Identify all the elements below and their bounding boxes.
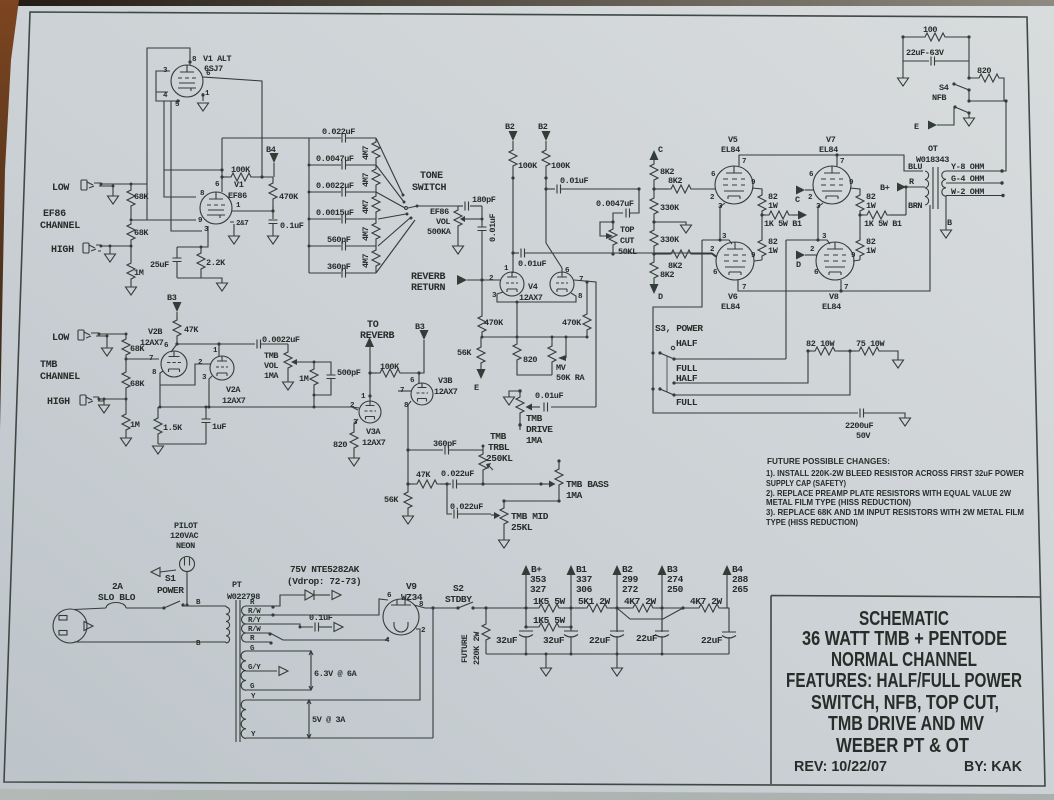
ground 2200uF <box>900 418 911 426</box>
wires LOW TMB jack <box>91 333 126 348</box>
resistor 1M input <box>130 246 132 261</box>
pot TMB VOL 1MA <box>287 344 289 350</box>
svg-text:V3A: V3A <box>366 427 381 437</box>
svg-text:TOP: TOP <box>620 225 634 235</box>
svg-text:1.5K: 1.5K <box>163 423 183 433</box>
6.3V bottom tap G <box>246 689 311 691</box>
svg-text:1K5 5W: 1K5 5W <box>533 596 566 607</box>
ground under 2&7 <box>229 236 240 244</box>
resistor 56K to E <box>480 337 482 345</box>
jack HIGH TMB <box>80 395 93 405</box>
svg-text:47K: 47K <box>416 470 431 480</box>
title block box <box>771 596 1041 785</box>
HT tap RW1 to V9 pin6 <box>246 599 388 615</box>
svg-text:360pF: 360pF <box>433 439 457 449</box>
OT tap W-2 OHM <box>946 195 1003 197</box>
resistor 1K5 5W upper <box>536 604 562 612</box>
capacitor 0.0022uF <box>257 340 261 349</box>
title block text <box>786 608 1022 757</box>
wire V1ALT pin3/4/5 box <box>156 71 180 101</box>
svg-text:1W: 1W <box>866 246 877 256</box>
svg-text:W-2 OHM: W-2 OHM <box>951 187 984 197</box>
OT core <box>933 167 938 209</box>
resistor 1K 5W B1 right <box>860 214 864 216</box>
capacitor 0.0015uF row4 <box>342 215 346 224</box>
tone row 1 wire <box>309 137 376 139</box>
tube V2B 12AX7 <box>161 351 187 377</box>
resistor 82 1W V5 screen <box>752 188 762 193</box>
capacitor 25uF cathode <box>176 247 178 258</box>
svg-text:PT: PT <box>232 580 242 590</box>
open arrow 0.1uF out <box>334 623 343 632</box>
5V bottom tap Y <box>246 737 433 739</box>
tube V1 EF86 <box>200 192 232 224</box>
svg-text:S2: S2 <box>453 583 464 594</box>
wire B4 node <box>727 575 729 632</box>
svg-text:68K: 68K <box>134 192 149 202</box>
wire V2A pin2 grid <box>160 364 211 385</box>
resistor 820 NFB <box>969 37 976 78</box>
wire plug bottom to PT <box>74 641 226 643</box>
OT secondary bottom to ground B <box>945 196 947 230</box>
wire V1 pin3 cathode <box>177 226 208 247</box>
switch S2 STDBY <box>456 606 459 609</box>
svg-text:68K: 68K <box>134 228 149 238</box>
svg-text:TMB: TMB <box>526 413 543 424</box>
junction pin8 <box>188 60 191 63</box>
svg-text:EF86: EF86 <box>430 207 449 217</box>
switch S4 NFB upper <box>954 84 969 101</box>
svg-text:LOW: LOW <box>52 183 69 194</box>
svg-text:V7: V7 <box>826 135 836 145</box>
svg-text:0.0022uF: 0.0022uF <box>316 181 354 191</box>
bus under V4 <box>481 336 587 338</box>
svg-text:FUTURE: FUTURE <box>460 634 470 663</box>
wire V1 pin6 plate up to tone row <box>221 138 223 192</box>
PT core <box>236 600 240 742</box>
svg-text:PILOT: PILOT <box>174 521 198 531</box>
junction dots LOW <box>100 183 103 186</box>
svg-text:TYPE (HISS REDUCTION): TYPE (HISS REDUCTION) <box>766 517 858 527</box>
svg-text:22uF-63V: 22uF-63V <box>906 48 945 58</box>
resistor 1M mixer <box>313 362 315 367</box>
ground NFB left <box>902 61 904 78</box>
svg-text:56K: 56K <box>457 348 472 358</box>
tone stack left bus <box>308 138 310 273</box>
capacitor 0.022uF upper <box>453 480 457 489</box>
wire B4 to node <box>273 163 275 177</box>
resistor 8K2 horizontal to V6 grid <box>654 253 668 255</box>
resistor 330K upper <box>653 189 655 196</box>
plug prongs <box>59 616 67 621</box>
wiper arrow TMB VOL <box>297 361 314 363</box>
svg-text:36 WATT TMB + PENTODE: 36 WATT TMB + PENTODE <box>802 628 1007 650</box>
svg-text:4K7 2W: 4K7 2W <box>624 596 657 607</box>
wiper arrow MV <box>565 337 567 358</box>
svg-text:1K5 5W: 1K5 5W <box>533 615 566 626</box>
svg-text:R/W: R/W <box>248 608 261 616</box>
net arrow TO REVERB up <box>365 337 374 347</box>
ground 56K TMB <box>403 516 414 524</box>
svg-text:1W: 1W <box>768 246 779 256</box>
tube V8 EL84 <box>816 242 854 280</box>
svg-text:0.022uF: 0.022uF <box>322 127 355 137</box>
filter ground bus <box>486 653 729 655</box>
pot TMB BASS 1MA <box>558 461 560 467</box>
6.3V top tap G <box>246 650 311 652</box>
svg-text:REV: 10/22/07: REV: 10/22/07 <box>794 758 887 775</box>
resistor 8K2 vertical lower <box>653 254 655 260</box>
svg-text:V1: V1 <box>234 180 244 190</box>
svg-text:HIGH: HIGH <box>47 397 70 408</box>
pilot left arrow <box>160 570 176 572</box>
tone switch contacts <box>402 194 405 197</box>
svg-text:W022798: W022798 <box>227 592 260 602</box>
ground HIGH TMB <box>99 405 110 413</box>
svg-text:470K: 470K <box>484 318 504 328</box>
wire V2A pin3 cathode down <box>209 376 212 407</box>
HT tap RW2 to V9 pin4 <box>246 633 389 640</box>
plate wire V6 V8 to OT BRN <box>738 205 930 291</box>
ground under LOW jack <box>108 196 119 204</box>
svg-text:V2A: V2A <box>226 385 241 395</box>
5V top tap Y to V9 pin2 <box>246 629 420 700</box>
net arrow D down <box>650 284 659 294</box>
svg-text:32uF: 32uF <box>543 635 565 646</box>
ground V2 cathode <box>153 446 164 454</box>
svg-text:50K RA: 50K RA <box>556 373 586 383</box>
jack LOW EF86 <box>81 180 94 190</box>
svg-text:B3: B3 <box>415 322 425 332</box>
PT 6.3V winding coil <box>241 651 246 690</box>
svg-text:8K2: 8K2 <box>668 176 682 186</box>
svg-text:470K: 470K <box>562 318 582 328</box>
svg-text:2&7: 2&7 <box>236 220 248 228</box>
svg-text:S4: S4 <box>939 83 949 93</box>
wiper arrow TMB DRIVE <box>526 404 533 411</box>
switch S3 gang link <box>666 356 668 392</box>
net arrow B2 left <box>509 131 518 141</box>
svg-text:500KA: 500KA <box>427 227 452 237</box>
ground stub right <box>616 654 618 668</box>
svg-text:7: 7 <box>742 158 746 166</box>
svg-text:FULL: FULL <box>676 397 698 408</box>
capacitor 0.0047uF row2 <box>342 161 346 170</box>
svg-text:TRBL: TRBL <box>488 442 510 453</box>
svg-text:TMB: TMB <box>264 351 278 361</box>
cathode bus V2 <box>158 407 358 410</box>
pot TMB MID 25KL <box>503 501 505 506</box>
svg-text:2A: 2A <box>112 581 123 592</box>
svg-text:7: 7 <box>844 284 848 292</box>
wire V3A pin3 to 820 <box>354 419 358 424</box>
svg-text:7: 7 <box>149 355 153 363</box>
tube V4 left triode 12AX7 <box>500 272 524 296</box>
svg-text:68K: 68K <box>130 379 145 389</box>
tube V3B 12AX7 <box>411 383 433 405</box>
capacitor 560pF row5 <box>342 242 346 251</box>
svg-text:Y-8 OHM: Y-8 OHM <box>951 162 984 172</box>
svg-text:LOW: LOW <box>52 333 69 344</box>
wire V1ALT pin6 to plate node <box>203 77 262 177</box>
svg-text:3). REPLACE 68K AND 1M INPUT R: 3). REPLACE 68K AND 1M INPUT RESISTORS W… <box>766 507 1024 517</box>
wire V1ALT pin8 top box <box>147 48 196 220</box>
svg-text:8K2: 8K2 <box>660 270 674 280</box>
svg-text:BLU: BLU <box>908 162 922 172</box>
capacitor 0.0047uF top cut <box>626 209 630 218</box>
svg-text:TO: TO <box>367 320 379 331</box>
svg-text:265: 265 <box>732 584 749 595</box>
wire V8 pin7 stub <box>840 280 842 291</box>
svg-text:0.01uF: 0.01uF <box>488 213 498 242</box>
svg-text:0.0015uF: 0.0015uF <box>316 208 354 218</box>
wire V7 pin3 down <box>818 203 823 240</box>
svg-text:12AX7: 12AX7 <box>222 396 246 406</box>
junction dots HIGH <box>100 245 103 248</box>
svg-text:V3B: V3B <box>438 376 452 386</box>
capacitor 22uF-63V <box>903 37 929 61</box>
wire S1 to PT primary top <box>183 605 226 607</box>
resistor 1M TMB <box>125 399 127 412</box>
wire plate node to tube <box>232 206 273 219</box>
ground under V1ALT pin1 <box>198 103 209 111</box>
resistor 2.2K cathode <box>200 247 202 251</box>
ground stub left <box>545 654 547 668</box>
pot TMB TRBL 250KL <box>482 446 484 452</box>
resistor 470K V4 left <box>481 280 483 314</box>
wire screens to B+ node <box>905 187 907 215</box>
wire B3 node <box>661 575 663 632</box>
svg-text:100: 100 <box>923 25 937 35</box>
capacitor 2200uF 50V <box>860 409 864 418</box>
svg-text:C: C <box>658 145 663 155</box>
tube V1 ALT 6SJ7 <box>171 65 203 97</box>
svg-text:OT: OT <box>928 144 938 154</box>
svg-text:330K: 330K <box>660 203 680 213</box>
junction <box>130 219 133 222</box>
svg-text:1uF: 1uF <box>212 422 226 432</box>
svg-text:327: 327 <box>530 584 547 595</box>
net arrow B3 V3B <box>420 330 429 340</box>
svg-text:D: D <box>658 292 663 302</box>
svg-text:EF86: EF86 <box>228 191 247 201</box>
plug arrow <box>84 622 93 631</box>
svg-text:SWITCH: SWITCH <box>412 183 447 194</box>
svg-text:47K: 47K <box>184 325 199 335</box>
svg-text:EL84: EL84 <box>721 302 740 312</box>
tone row 2 wire <box>309 164 376 166</box>
svg-text:V5: V5 <box>728 135 738 145</box>
svg-text:1MA: 1MA <box>526 435 543 446</box>
svg-text:100K: 100K <box>231 165 251 175</box>
net arrow B1 <box>567 565 576 575</box>
wire S3 common down to 2200uF <box>653 353 858 413</box>
wires HIGH jack <box>96 245 131 254</box>
wire B1 node <box>570 575 572 630</box>
svg-text:TMB DRIVE AND MV: TMB DRIVE AND MV <box>828 713 985 735</box>
svg-text:E: E <box>914 122 919 132</box>
tone row 6 wire <box>309 272 376 274</box>
svg-text:BRN: BRN <box>908 201 922 211</box>
svg-text:(Vdrop: 72-73): (Vdrop: 72-73) <box>287 576 361 587</box>
svg-text:306: 306 <box>576 584 593 595</box>
resistor 82 10W <box>806 349 809 352</box>
svg-text:1K 5W B1: 1K 5W B1 <box>764 219 802 229</box>
tube V3A 12AX7 <box>359 401 381 423</box>
net arrow E to S4 <box>928 121 937 130</box>
capacitor 360pF row6 <box>342 269 346 278</box>
svg-text:HALF: HALF <box>676 373 698 384</box>
svg-text:7: 7 <box>742 284 746 292</box>
wire fuse to S1 <box>126 607 164 609</box>
ground TMB MID <box>499 540 510 548</box>
wire V2B pin8 cathode down <box>160 371 163 407</box>
switch S1 POWER <box>162 606 165 609</box>
net arrow B4 <box>723 565 732 575</box>
wire h to pin6 node <box>164 169 222 171</box>
svg-text:330K: 330K <box>660 235 680 245</box>
capacitor 0.1uF PSU <box>315 623 319 632</box>
switch S4 NFB lower <box>955 107 969 118</box>
svg-text:B2: B2 <box>538 122 548 132</box>
svg-text:0.01uF: 0.01uF <box>535 391 564 401</box>
svg-text:272: 272 <box>622 584 639 595</box>
resistor 4M7 row1-2 <box>375 138 377 140</box>
net arrow D to V8 grid <box>796 251 805 260</box>
resistor 4M7 row5-6 <box>375 246 377 248</box>
capacitor 0.1uF <box>269 220 278 224</box>
net arrow REVERB RETURN <box>457 275 467 285</box>
wire TOP CUT row1 tap <box>630 189 639 213</box>
wire 180pF down reverb <box>481 206 483 280</box>
svg-text:S1: S1 <box>165 573 176 584</box>
svg-text:STDBY: STDBY <box>445 594 472 605</box>
wire V3B pin7 stub <box>398 390 411 392</box>
net arrow B2 right <box>542 131 551 141</box>
svg-text:32uF: 32uF <box>496 635 518 646</box>
svg-text:2.2K: 2.2K <box>206 258 226 268</box>
net arrow B2 <box>613 565 622 575</box>
resistor 8K2 horizontal to V5 grid <box>654 188 668 190</box>
capacitor 32uF first <box>519 631 533 637</box>
dark top band of photo <box>0 0 1054 6</box>
svg-text:120VAC: 120VAC <box>170 531 199 541</box>
tone switch fan wires <box>376 138 415 273</box>
HT tap R bottom <box>246 641 270 643</box>
capacitor 0.01uF vertical <box>478 227 487 231</box>
svg-text:CUT: CUT <box>620 236 634 246</box>
wire to V2B grid <box>126 358 159 360</box>
svg-text:0.0047uF: 0.0047uF <box>316 154 354 164</box>
tone row 5 wire <box>309 245 376 247</box>
wiper arrow EF86 VOL <box>465 218 470 220</box>
svg-text:6.3V @ 6A: 6.3V @ 6A <box>314 669 358 679</box>
net arrow B3 <box>658 565 667 575</box>
junction dots tone bus <box>308 164 311 167</box>
resistor 100 NFB <box>903 36 922 38</box>
capacitor 22uF second <box>661 608 663 631</box>
svg-text:REVERB: REVERB <box>411 272 446 283</box>
resistor 68K TMB 2 <box>125 359 127 370</box>
svg-text:0.1uF: 0.1uF <box>280 221 304 231</box>
wire B+ down <box>525 575 527 608</box>
tube V6 EL84 <box>716 242 754 280</box>
bottom table band <box>0 789 1054 800</box>
pot TOP CUT 50KL wiper loop <box>600 222 613 236</box>
pot TMB DRIVE 1MA <box>518 389 521 392</box>
wire V1ALT box to V1 pin3 <box>171 101 202 231</box>
ground S4 <box>964 118 975 126</box>
junction plate <box>220 168 223 171</box>
svg-text:SCHEMATIC: SCHEMATIC <box>859 608 949 630</box>
resistor 330K lower <box>653 222 655 228</box>
svg-text:7: 7 <box>840 158 844 166</box>
svg-text:360pF: 360pF <box>327 262 351 272</box>
wiper arrow TMB TRBL <box>489 466 493 470</box>
svg-text:1M: 1M <box>130 420 140 430</box>
resistor 82 1W V6 screen <box>761 215 763 238</box>
ground under 1M TMB <box>121 438 132 446</box>
capacitor 0.022uF row1 <box>342 134 346 143</box>
note FUTURE POSSIBLE CHANGES <box>766 456 1024 527</box>
svg-text:560pF: 560pF <box>327 235 351 245</box>
wire TO REVERB down to V3A pin1 <box>369 347 371 401</box>
svg-text:4M7: 4M7 <box>361 227 371 241</box>
pot EF86 VOL 500KA <box>457 206 459 208</box>
svg-text:E: E <box>474 383 479 393</box>
svg-text:V9: V9 <box>406 581 417 592</box>
svg-text:B3: B3 <box>167 293 177 303</box>
svg-text:12AX7: 12AX7 <box>140 338 164 348</box>
tone switch pole wire <box>408 206 458 208</box>
resistor 820 V4 cathode <box>516 302 518 342</box>
svg-text:CHANNEL: CHANNEL <box>40 221 80 232</box>
svg-text:FEATURES: HALF/FULL POWER: FEATURES: HALF/FULL POWER <box>786 670 1022 692</box>
svg-text:22uF: 22uF <box>636 633 658 644</box>
6.3V mid tap G/Y with arrow <box>246 670 277 672</box>
svg-text:0.022uF: 0.022uF <box>441 469 474 479</box>
svg-text:EL84: EL84 <box>721 145 740 155</box>
resistor 820 V3A cathode <box>353 424 355 430</box>
svg-text:MV: MV <box>556 363 567 373</box>
svg-text:POWER: POWER <box>157 585 184 596</box>
ground LOW TMB <box>102 348 113 356</box>
wires LOW jack to 68K node <box>94 183 147 196</box>
tube V2A 12AX7 <box>210 356 234 380</box>
svg-text:5V @ 3A: 5V @ 3A <box>312 715 346 725</box>
6.3V dimension line <box>309 651 313 690</box>
svg-text:250KL: 250KL <box>486 453 513 464</box>
net arrow B1 left <box>798 211 807 220</box>
resistor FUTURE 220K 2W <box>485 608 487 622</box>
svg-text:0.022uF: 0.022uF <box>450 502 483 512</box>
pilot lamp neon <box>180 557 195 572</box>
net arrow C to V7 grid <box>796 186 805 195</box>
svg-text:0.0047uF: 0.0047uF <box>596 199 634 209</box>
svg-text:C: C <box>795 195 800 205</box>
OT secondary coil <box>942 171 946 196</box>
HT tap R top to diode <box>246 595 305 606</box>
wire B2 node <box>616 575 618 632</box>
resistor 100K V3 grid row <box>370 372 377 374</box>
wire V8 row down to S3 FULL <box>785 240 787 359</box>
svg-text:NFB: NFB <box>932 93 946 103</box>
PT 5V winding coil <box>241 700 246 738</box>
svg-text:820: 820 <box>523 355 537 365</box>
svg-text:G-4 OHM: G-4 OHM <box>951 174 984 184</box>
svg-text:820: 820 <box>977 66 991 76</box>
wire S2 to B+ node <box>473 607 536 609</box>
